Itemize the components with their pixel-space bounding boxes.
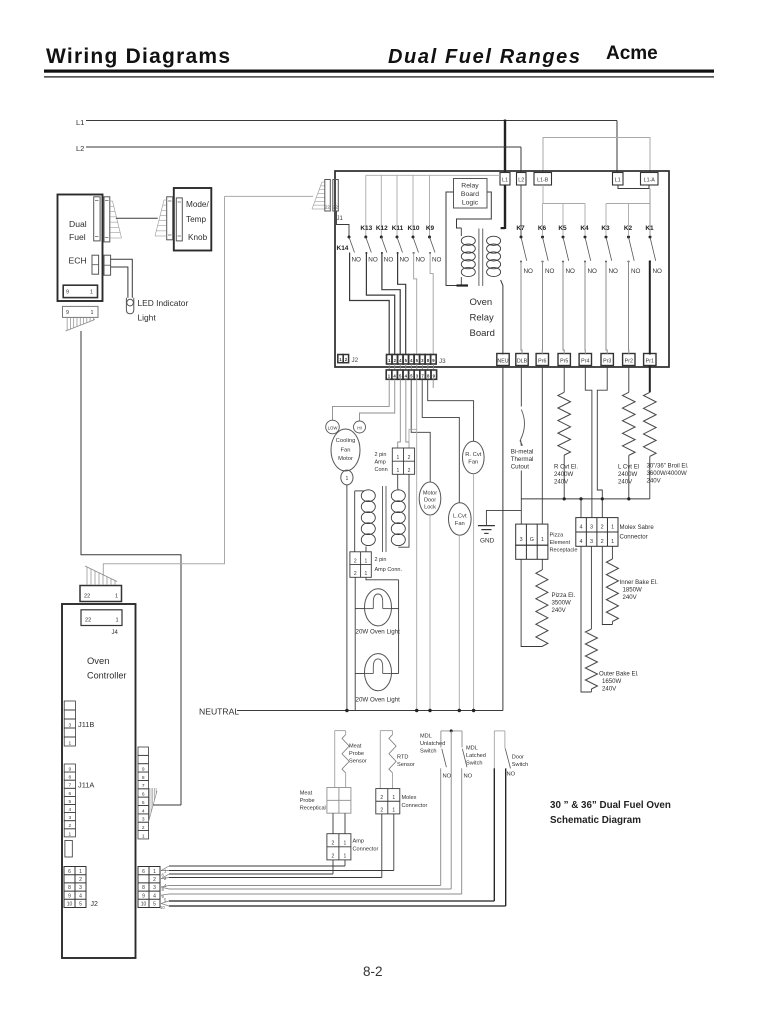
svg-text:K10: K10 — [408, 225, 420, 232]
svg-text:MDL: MDL — [420, 734, 432, 740]
svg-text:2: 2 — [601, 539, 604, 545]
wire relay fixed contact to J3 — [430, 253, 433, 355]
wire relay fixed contact to terminal — [563, 261, 564, 355]
svg-text:Schematic Diagram: Schematic Diagram — [550, 815, 641, 826]
wire neutral bus — [237, 710, 503, 712]
svg-text:Switch: Switch — [420, 749, 436, 755]
svg-text:3: 3 — [79, 885, 82, 891]
switch: MDL latched — [461, 731, 463, 748]
svg-text:Pr4: Pr4 — [581, 359, 589, 365]
transformer T2 right coil — [391, 490, 405, 502]
ground symbol — [478, 525, 495, 527]
svg-text:9: 9 — [68, 767, 71, 773]
svg-text:10: 10 — [160, 905, 165, 910]
switch: door switch — [494, 730, 505, 732]
svg-text:4: 4 — [68, 807, 71, 813]
svg-text:1850W: 1850W — [623, 587, 643, 594]
connector ECH 2-pin (inner) — [92, 255, 99, 274]
wire L1 bold drop to left L1 terminal — [504, 120, 506, 173]
wire harness ECH to oven controller J4 — [81, 331, 181, 805]
svg-text:Pizza El.: Pizza El. — [552, 592, 576, 599]
svg-text:8: 8 — [68, 885, 71, 891]
thick segment on primary bottom — [457, 284, 469, 286]
svg-text:NO: NO — [432, 257, 442, 264]
svg-text:Board: Board — [470, 328, 495, 339]
svg-text:Sensor: Sensor — [397, 762, 415, 768]
svg-text:240V: 240V — [623, 594, 638, 601]
terminal Pr1 — [644, 354, 656, 366]
wire amp connector to harness — [332, 860, 334, 874]
wire J3-7 to L cavity fan — [422, 379, 459, 503]
svg-text:Amp: Amp — [375, 460, 386, 466]
connector J2 grid (mate) — [138, 867, 160, 908]
svg-text:4: 4 — [579, 539, 582, 545]
terminal Pr3 — [601, 354, 613, 366]
transformer T1 secondary coil — [487, 236, 501, 245]
svg-text:9: 9 — [142, 893, 145, 899]
svg-text:Meat: Meat — [349, 744, 362, 750]
svg-text:NO: NO — [653, 268, 663, 275]
svg-text:Motor: Motor — [338, 456, 353, 462]
wire relay fixed contact to J3 — [350, 253, 390, 355]
connector ECH 2-pin (outer mate) — [104, 255, 111, 275]
connector J11A pin column — [64, 764, 75, 772]
wire MDL common leg — [450, 731, 452, 889]
svg-text:Switch: Switch — [466, 761, 482, 767]
svg-text:Conn: Conn — [375, 467, 388, 473]
svg-text:20W Oven Light: 20W Oven Light — [356, 697, 401, 704]
connector knob header (inner) — [176, 198, 182, 241]
svg-text:HI: HI — [357, 425, 362, 430]
svg-text:Pr1: Pr1 — [646, 359, 654, 365]
connector: amp connector (meat probe) — [327, 834, 351, 860]
connector blank pin — [65, 840, 72, 857]
svg-text:1: 1 — [611, 525, 614, 531]
lamp: 20W oven light (lower) — [365, 654, 392, 691]
wire NEU to neutral bus — [502, 365, 504, 711]
svg-text:K12: K12 — [376, 225, 388, 232]
wire L1 horizontal — [86, 120, 617, 122]
terminal Pr4 — [579, 354, 591, 366]
svg-text:NO: NO — [464, 774, 473, 780]
svg-text:22: 22 — [84, 594, 90, 600]
svg-text:4: 4 — [142, 808, 145, 814]
svg-text:9: 9 — [142, 766, 145, 772]
svg-text:NEUTRAL: NEUTRAL — [199, 707, 239, 717]
wire pair to LED — [111, 259, 133, 298]
wire J1 to left harness (gray) — [225, 195, 314, 197]
svg-text:240V: 240V — [552, 607, 567, 614]
svg-text:Sensor: Sensor — [349, 759, 367, 765]
wire relay fixed contact to terminal — [521, 261, 522, 355]
svg-text:Fan: Fan — [455, 521, 465, 527]
wire K1 fixed contact to Pr1 (bold) — [649, 261, 651, 355]
svg-text:4: 4 — [579, 525, 582, 531]
svg-text:NEU: NEU — [497, 359, 508, 365]
svg-text:Molex: Molex — [402, 795, 417, 801]
svg-text:K9: K9 — [426, 225, 435, 232]
svg-text:2: 2 — [354, 571, 357, 577]
svg-text:5: 5 — [142, 800, 145, 806]
svg-text:2: 2 — [68, 823, 71, 829]
svg-text:Connector: Connector — [620, 534, 648, 541]
pcb: Oven Controller box — [62, 604, 136, 958]
svg-text:1650W: 1650W — [602, 678, 622, 685]
svg-text:NO: NO — [609, 268, 619, 275]
wire J3-3 to amp connector pin1 — [398, 379, 401, 448]
svg-text:Bi-metal: Bi-metal — [511, 449, 534, 456]
svg-text:22: 22 — [85, 618, 91, 624]
svg-text:20W Oven Light: 20W Oven Light — [356, 629, 401, 636]
wire relay common drop — [365, 175, 367, 236]
connector 2-pin AMP (lower) — [350, 552, 371, 578]
svg-text:Receptacle: Receptacle — [550, 548, 578, 554]
wire L1 drop to right L1 terminal — [616, 121, 618, 173]
transformer T1 secondary lead — [457, 192, 492, 228]
svg-text:Logic: Logic — [462, 200, 479, 207]
module: Relay Board Logic — [454, 179, 488, 209]
svg-text:Probe: Probe — [300, 798, 315, 804]
svg-text:2 pin: 2 pin — [375, 557, 387, 563]
svg-text:L1-B: L1-B — [537, 178, 549, 184]
svg-text:Mode/: Mode/ — [186, 200, 209, 209]
svg-text:1: 1 — [90, 290, 93, 296]
svg-text:MDL: MDL — [466, 746, 478, 752]
svg-text:G: G — [530, 537, 534, 543]
connector: Pizza Element Receptacle — [516, 524, 548, 545]
svg-text:1: 1 — [91, 310, 94, 316]
svg-text:30”/36” Broil El.: 30”/36” Broil El. — [647, 463, 689, 470]
svg-text:J3: J3 — [439, 358, 446, 365]
wire L1-B distribution to K6 K5 K4 — [542, 185, 544, 204]
svg-text:Cutout: Cutout — [511, 464, 530, 471]
svg-text:J11B: J11B — [78, 720, 94, 729]
svg-text:Board: Board — [461, 191, 479, 198]
svg-text:L2: L2 — [518, 178, 524, 184]
wire L1-B / L1-A gray link — [543, 138, 650, 173]
svg-text:Receptical: Receptical — [300, 806, 326, 812]
svg-text:NO: NO — [588, 268, 598, 275]
svg-text:6: 6 — [142, 869, 145, 875]
svg-text:NO: NO — [368, 257, 378, 264]
svg-text:Cooling: Cooling — [336, 438, 356, 444]
svg-text:J4: J4 — [112, 630, 119, 636]
wire bold L1 into transformer — [504, 185, 506, 229]
connector J1 headers — [325, 180, 331, 212]
connector: Molex Sabre — [576, 518, 618, 547]
svg-text:NO: NO — [416, 257, 426, 264]
svg-text:1: 1 — [153, 869, 156, 875]
svg-text:NO: NO — [352, 257, 362, 264]
svg-text:3: 3 — [590, 539, 593, 545]
svg-text:22: 22 — [325, 205, 330, 210]
wire relay fixed contact to terminal — [628, 261, 630, 355]
wire amp pin1 to transformer — [397, 474, 399, 488]
svg-text:2: 2 — [408, 468, 411, 474]
wire L1/L1-A bracket — [618, 185, 649, 189]
terminal L1 (right) — [613, 173, 624, 186]
wire molex to harness — [381, 814, 383, 878]
lamp: 20W oven light (upper) — [365, 589, 392, 626]
svg-text:Temp: Temp — [186, 215, 206, 224]
svg-text:1: 1 — [396, 468, 399, 474]
wire L1-A distribution to K3 K2 K1 — [606, 203, 650, 205]
wire relay fixed contact to J3 — [398, 253, 406, 355]
svg-text:30 ” & 36” Dual Fuel Oven: 30 ” & 36” Dual Fuel Oven — [550, 800, 671, 811]
wire relay fixed contact to J3 — [382, 253, 400, 355]
connector J11B pin column — [64, 701, 75, 710]
fan: L Cvt Fan — [449, 503, 472, 535]
svg-text:9: 9 — [66, 290, 69, 296]
svg-text:GND: GND — [480, 538, 495, 545]
svg-text:240V: 240V — [602, 686, 617, 693]
svg-text:8: 8 — [142, 775, 145, 781]
connector ECH bottom 9..1 (inner) — [63, 285, 97, 297]
connector J3 (board) — [387, 355, 393, 365]
svg-text:L.Cvt: L.Cvt — [453, 514, 467, 520]
svg-text:2: 2 — [332, 854, 335, 860]
terminal Pr2 — [623, 354, 635, 366]
switch: MDL unlatched — [441, 730, 462, 732]
svg-text:Pr5: Pr5 — [560, 359, 568, 365]
svg-text:2 pin: 2 pin — [375, 452, 387, 458]
svg-text:1: 1 — [68, 740, 71, 746]
switch HI — [354, 421, 366, 433]
svg-text:3600W/4000W: 3600W/4000W — [647, 470, 688, 477]
wire relay common drop — [380, 175, 382, 236]
connector J3 mate row — [388, 364, 390, 370]
wire relay fixed contact to terminal — [606, 261, 607, 355]
header double rule — [44, 70, 714, 73]
wire amp pin2 around transformer — [398, 474, 409, 547]
connector ECH main header (outer mate) — [104, 197, 110, 242]
svg-text:1: 1 — [115, 594, 118, 600]
svg-text:8: 8 — [142, 885, 145, 891]
svg-text:240V: 240V — [647, 478, 662, 485]
svg-text:Switch: Switch — [512, 762, 528, 768]
svg-text:5: 5 — [68, 799, 71, 805]
svg-text:1: 1 — [116, 618, 119, 624]
wire relay common drop — [429, 175, 431, 236]
resistor Outer Bake El heating element — [590, 546, 592, 629]
svg-text:Element: Element — [550, 540, 571, 546]
fan: R Cvt Fan — [463, 441, 485, 474]
svg-text:Pr6: Pr6 — [538, 359, 546, 365]
svg-text:6: 6 — [142, 792, 145, 798]
svg-text:9: 9 — [68, 893, 71, 899]
wire Pr4 to molex pin3 — [585, 365, 592, 518]
svg-text:1: 1 — [344, 854, 347, 860]
svg-text:9: 9 — [66, 310, 69, 316]
svg-text:Meat: Meat — [300, 791, 313, 797]
wire J3-8 to R cavity fan — [428, 379, 474, 441]
svg-text:2: 2 — [380, 795, 383, 801]
svg-text:3: 3 — [142, 817, 145, 823]
wire element bus — [521, 498, 650, 500]
wire J3-2 to cooling fan HI — [360, 379, 395, 421]
svg-text:7: 7 — [68, 783, 71, 789]
control: Mode/Temp Knob box — [174, 188, 212, 251]
svg-text:K14: K14 — [337, 245, 349, 252]
svg-text:J11A: J11A — [78, 781, 94, 790]
svg-text:3: 3 — [590, 525, 593, 531]
svg-text:L1: L1 — [76, 118, 84, 127]
terminal L1-B — [534, 173, 552, 186]
svg-text:Dual: Dual — [69, 219, 87, 229]
svg-text:NO: NO — [507, 772, 516, 778]
svg-text:Unlatched: Unlatched — [420, 741, 445, 747]
svg-text:7: 7 — [142, 783, 145, 789]
connector J11 mate column — [138, 747, 149, 755]
svg-text:LED Indicator: LED Indicator — [138, 298, 189, 308]
svg-text:240V: 240V — [618, 479, 633, 486]
wire L2 to K7 common — [520, 185, 522, 236]
svg-text:1: 1 — [365, 558, 368, 564]
transformer T1 primary coil — [460, 228, 462, 236]
connector J4 (outer mate 22..1) — [80, 586, 122, 602]
svg-text:Molex Sabre: Molex Sabre — [620, 524, 655, 531]
svg-text:Knob: Knob — [188, 233, 208, 242]
wire J1 to K14 — [337, 211, 350, 236]
thermal cutout tick — [520, 441, 523, 446]
wire bus to molex pin4 — [580, 499, 582, 518]
resistor Broil El heating element — [649, 365, 651, 392]
terminal Pr5 — [558, 354, 570, 366]
svg-text:Fuel: Fuel — [69, 232, 86, 242]
svg-text:6: 6 — [68, 791, 71, 797]
svg-text:Relay: Relay — [461, 183, 479, 190]
svg-text:2: 2 — [153, 877, 156, 883]
wire J3-4 to amp connector pin2 — [406, 379, 409, 448]
connector J4 (inner 22..1) — [81, 610, 122, 626]
svg-text:8: 8 — [68, 775, 71, 781]
svg-text:1: 1 — [392, 795, 395, 801]
svg-text:3500W: 3500W — [552, 600, 572, 607]
svg-text:L2: L2 — [76, 144, 84, 153]
svg-text:Connector: Connector — [402, 803, 428, 809]
svg-text:2: 2 — [354, 558, 357, 564]
svg-text:5: 5 — [79, 902, 82, 908]
wire Pr6 to pizza receptacle pin1 — [541, 365, 543, 524]
svg-text:L1: L1 — [615, 178, 621, 184]
controller: Dual Fuel ECH box — [58, 195, 103, 302]
svg-text:Latched: Latched — [466, 753, 486, 759]
wire J3-1 to cooling fan LOW — [333, 379, 390, 420]
svg-text:Oven: Oven — [87, 655, 109, 666]
svg-text:10: 10 — [67, 902, 73, 908]
terminal NEU — [497, 354, 509, 366]
transformer T1 core — [478, 229, 480, 287]
resistor Pizza El heating element — [541, 559, 543, 570]
wire to ground — [486, 510, 521, 525]
wire harness into J11 mate — [153, 804, 181, 806]
svg-text:1: 1 — [541, 537, 544, 543]
svg-text:2: 2 — [79, 877, 82, 883]
svg-text:L1-A: L1-A — [644, 178, 656, 184]
svg-text:Connector: Connector — [353, 847, 379, 853]
connector J1 hatch fan — [322, 181, 325, 183]
svg-text:Door: Door — [424, 498, 436, 504]
svg-text:ECH: ECH — [69, 256, 87, 266]
terminal DLB — [516, 354, 528, 366]
switch LOW — [326, 420, 340, 434]
wire R cvt fan to neutral — [473, 474, 475, 711]
svg-text:J1: J1 — [337, 216, 344, 222]
svg-text:RTD: RTD — [397, 755, 408, 761]
sensor: RTD — [380, 730, 392, 732]
svg-text:LOW: LOW — [328, 425, 339, 430]
svg-text:1: 1 — [79, 869, 82, 875]
wire gray harness down to J4 — [103, 196, 224, 575]
svg-text:2400W: 2400W — [618, 471, 638, 478]
svg-text:1: 1 — [396, 455, 399, 461]
motor: Cooling Fan Motor — [331, 429, 360, 471]
svg-text:L Cvt El: L Cvt El — [618, 464, 639, 471]
svg-text:1: 1 — [344, 841, 347, 847]
wire L cvt fan to neutral — [458, 535, 460, 710]
wire relay common bus (left) — [366, 174, 500, 176]
connector 2-pin AMP (upper) — [392, 448, 414, 474]
svg-text:1: 1 — [611, 539, 614, 545]
wire lamp chain left — [354, 577, 356, 710]
svg-text:Pr2: Pr2 — [625, 359, 633, 365]
svg-text:22: 22 — [333, 205, 338, 210]
connector: meat probe receptical — [327, 788, 351, 814]
terminal Pr6 — [536, 354, 548, 366]
wire ECH to Mode/Temp knob — [116, 217, 158, 219]
connector: molex (RTD) — [376, 789, 400, 814]
wire relay common drop — [412, 175, 414, 236]
LED indicator lamp — [126, 298, 133, 314]
connector ECH main header (inner) — [94, 197, 100, 241]
svg-text:NO: NO — [524, 268, 534, 275]
connector ECH hatch fan — [110, 200, 113, 202]
svg-text:J2: J2 — [352, 357, 359, 364]
svg-text:8-2: 8-2 — [363, 964, 383, 979]
svg-text:NO: NO — [545, 268, 555, 275]
svg-text:Outer Bake El.: Outer Bake El. — [599, 671, 639, 678]
motor: Motor Door Lock — [419, 482, 441, 515]
svg-text:R. Cvt: R. Cvt — [465, 452, 481, 458]
svg-text:2: 2 — [380, 808, 383, 814]
wire L2 drop to L2 terminal — [520, 147, 522, 173]
connector J11 mate hatch — [149, 791, 158, 822]
wire receptical to amp connector — [332, 813, 334, 834]
wire relay fixed contact to J3 — [414, 253, 417, 355]
wire L2 horizontal — [86, 146, 521, 148]
terminal L1-A — [641, 173, 659, 186]
svg-text:Lock: Lock — [424, 505, 436, 511]
svg-text:Thermal: Thermal — [511, 456, 534, 463]
svg-text:Pizza: Pizza — [550, 533, 565, 539]
connector J4 hatch — [85, 566, 117, 582]
wire cooling fan to neutral — [346, 485, 348, 711]
svg-text:4: 4 — [79, 893, 82, 899]
svg-text:1: 1 — [392, 808, 395, 814]
svg-text:2: 2 — [408, 455, 411, 461]
terminal 1 of cooling fan — [341, 470, 353, 485]
svg-text:NO: NO — [566, 268, 576, 275]
thermal cutout: bi-metal — [520, 365, 522, 407]
wire relay common drop — [396, 175, 398, 236]
svg-text:Oven: Oven — [470, 297, 493, 308]
svg-text:240V: 240V — [554, 479, 569, 486]
svg-text:NO: NO — [631, 268, 641, 275]
wire T2 left coil bottom — [365, 547, 367, 552]
transformer T1 primary lead — [446, 192, 461, 286]
sensor: meat probe — [335, 730, 346, 732]
svg-text:DLB: DLB — [517, 359, 528, 365]
